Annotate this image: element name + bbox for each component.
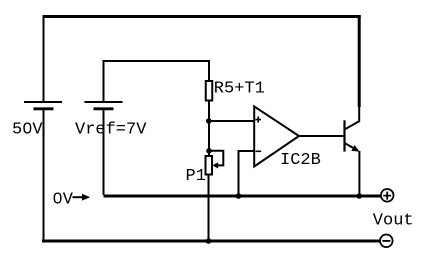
svg-text:R5+T1: R5+T1: [214, 80, 265, 99]
svg-text:0V: 0V: [53, 191, 74, 210]
svg-text:P1: P1: [186, 167, 206, 186]
svg-text:Vref=7V: Vref=7V: [75, 121, 147, 140]
svg-text:IC2B: IC2B: [280, 151, 321, 170]
svg-text:Vout: Vout: [373, 212, 414, 231]
